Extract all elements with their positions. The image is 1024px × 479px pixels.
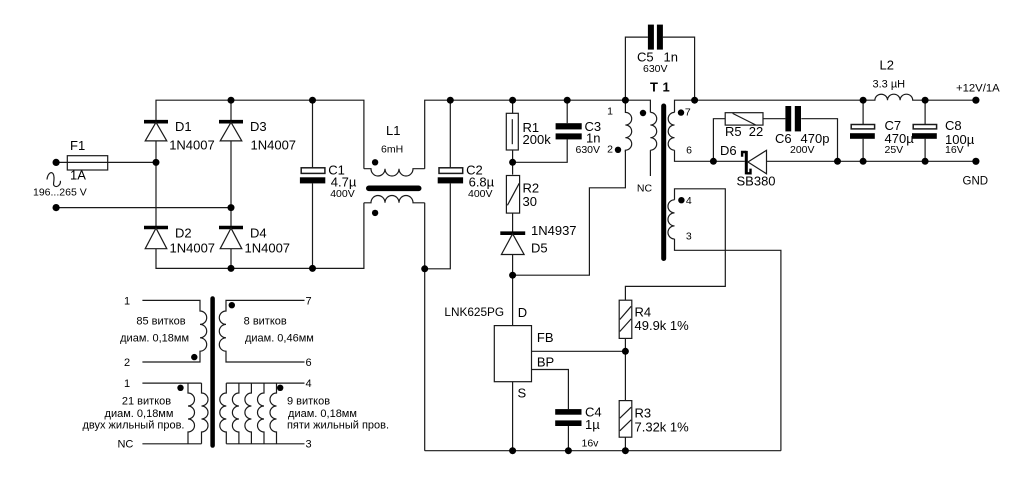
wire primary ground rail <box>425 450 781 452</box>
svg-text:1N4007: 1N4007 <box>245 240 291 255</box>
resistor R4 <box>619 300 632 338</box>
node R1 top <box>509 97 516 104</box>
wire R5 to C6 <box>763 118 785 120</box>
wire bias winding NC stub <box>649 150 651 176</box>
transformer T1 primary winding 1-2 <box>625 100 631 152</box>
svg-text:D1: D1 <box>175 119 192 134</box>
node C1 top <box>309 97 316 104</box>
node drain <box>509 272 516 279</box>
svg-text:NC: NC <box>117 439 133 451</box>
svg-text:7.32k 1%: 7.32k 1% <box>635 420 690 435</box>
svg-text:D3: D3 <box>250 119 267 134</box>
svg-text:400V: 400V <box>330 188 355 200</box>
wire LNK FB pin to divider node <box>532 350 626 352</box>
capacitor C3 <box>556 123 582 139</box>
svg-text:BP: BP <box>537 355 554 370</box>
svg-text:85 витков: 85 витков <box>136 316 185 328</box>
wire D2 anode to bottom rail <box>156 203 364 269</box>
svg-text:диам. 0,18мм: диам. 0,18мм <box>105 408 174 420</box>
svg-text:T1: T1 <box>650 79 674 94</box>
svg-text:1: 1 <box>607 106 613 118</box>
polarity dot shield winding <box>640 110 646 116</box>
svg-text:SB380: SB380 <box>737 174 776 189</box>
svg-text:7: 7 <box>685 107 691 119</box>
node C2 top <box>447 97 454 104</box>
wire feedback winding pin3 to primary ground rail <box>675 239 781 451</box>
svg-text:200V: 200V <box>790 144 815 156</box>
wire LNK drain pin <box>512 275 514 325</box>
wire top rectified rail (left section) <box>156 100 364 169</box>
transformer T1 feedback winding 4-3 <box>668 200 675 239</box>
node S ground <box>509 447 516 454</box>
svg-text:30: 30 <box>523 194 537 209</box>
wire R3 bottom <box>624 437 626 451</box>
detail polarity dot winding 4-3 <box>277 385 283 391</box>
diode D2 <box>144 228 168 249</box>
wire C5 left leg <box>625 37 648 100</box>
detail winding 4-3 five strands <box>220 383 305 444</box>
detail core <box>210 299 215 446</box>
svg-text:диам. 0,18мм: диам. 0,18мм <box>120 333 189 345</box>
svg-text:1N4007: 1N4007 <box>169 138 215 153</box>
wire L1 right to top rail (right section) <box>425 100 626 169</box>
node R1/R2 <box>509 159 516 166</box>
node C8 bottom <box>922 158 929 165</box>
wire LNK BP pin to C4 <box>532 370 569 410</box>
wire LNK source pin <box>512 382 514 451</box>
svg-text:16V: 16V <box>945 144 964 156</box>
svg-text:3: 3 <box>686 231 692 243</box>
svg-text:8 витков: 8 витков <box>244 316 287 328</box>
transformer T1 core <box>661 106 666 259</box>
svg-text:D4: D4 <box>250 226 267 241</box>
svg-text:D5: D5 <box>531 241 548 256</box>
transformer T1 shield winding <box>650 112 656 150</box>
diode D4 <box>219 228 243 249</box>
svg-text:D: D <box>518 305 527 320</box>
resistor R1 <box>506 113 518 150</box>
diode D3 <box>219 122 243 141</box>
node R3 ground <box>622 447 629 454</box>
capacitor C7 <box>850 125 875 139</box>
wire secondary pin7 to +12V rail <box>675 100 864 112</box>
svg-text:9 витков: 9 витков <box>287 396 330 408</box>
node C1 bottom <box>309 265 316 272</box>
svg-text:D6: D6 <box>720 143 737 158</box>
detail winding 1-NC <box>142 383 201 444</box>
svg-text:22: 22 <box>749 124 763 139</box>
inductor L2 <box>863 94 925 100</box>
polarity dot pin2 <box>615 147 621 153</box>
wire L1 bottom-right to C2 bottom junction and down to primary ground <box>424 203 426 451</box>
wire feedback winding pin4 to R4 top <box>625 189 725 300</box>
svg-text:диам. 0,18мм: диам. 0,18мм <box>288 408 357 420</box>
svg-text:S: S <box>518 386 527 401</box>
inductor L1 common-mode choke <box>364 159 425 216</box>
node C2 bottom <box>421 265 428 272</box>
capacitor C1 <box>300 168 325 184</box>
svg-text:2: 2 <box>124 357 130 369</box>
svg-text:6: 6 <box>686 145 692 157</box>
svg-text:49.9k 1%: 49.9k 1% <box>635 318 690 333</box>
svg-text:16v: 16v <box>582 438 600 450</box>
wire C8 column <box>924 100 926 161</box>
svg-text:200k: 200k <box>523 132 552 147</box>
svg-text:двух жильный пров.: двух жильный пров. <box>82 420 184 432</box>
svg-text:C8: C8 <box>945 118 962 133</box>
wire secondary pin6 to D6 cathode <box>675 150 745 161</box>
node C4 ground <box>565 447 572 454</box>
node L2 left <box>860 97 867 104</box>
wire C3 top <box>566 100 568 123</box>
wire C1 column <box>312 100 314 268</box>
resistor R3 <box>619 401 632 438</box>
svg-text:1N4937: 1N4937 <box>531 223 577 238</box>
svg-text:1: 1 <box>124 378 130 390</box>
svg-text:7: 7 <box>305 296 311 308</box>
svg-text:пяти жильный пров.: пяти жильный пров. <box>287 420 389 432</box>
wire R2 to D5 <box>512 213 514 233</box>
svg-text:LNK625PG: LNK625PG <box>444 305 504 319</box>
svg-text:6mH: 6mH <box>381 144 403 156</box>
svg-text:1µ: 1µ <box>585 417 600 432</box>
diode D6 schottky <box>742 150 766 174</box>
wire C6 to GND rail <box>801 119 837 162</box>
svg-text:2: 2 <box>607 144 613 156</box>
svg-text:NC: NC <box>637 183 653 195</box>
svg-text:25V: 25V <box>885 144 904 156</box>
svg-text:196...265 V: 196...265 V <box>33 187 87 199</box>
svg-text:3.3 µH: 3.3 µH <box>873 79 906 91</box>
node D3/D4 <box>228 204 235 211</box>
detail polarity dot winding 7-6 <box>229 302 235 308</box>
node pin1 <box>622 97 629 104</box>
svg-text:диам. 0,46мм: диам. 0,46мм <box>245 333 314 345</box>
wire bias winding top connection <box>625 100 650 112</box>
node C7 bottom <box>860 158 867 165</box>
wire R4 bottom to FB node and R3 <box>624 338 626 400</box>
detail polarity dot winding 1-NC <box>177 385 183 391</box>
svg-text:3: 3 <box>305 439 311 451</box>
svg-text:630V: 630V <box>576 144 601 156</box>
wire drain node to transformer pin 2 <box>513 150 626 275</box>
svg-text:400V: 400V <box>468 188 493 200</box>
node fuse bridge <box>153 159 160 166</box>
node R5 branch <box>710 158 717 165</box>
capacitor C5 <box>648 25 663 50</box>
svg-text:1A: 1A <box>70 168 86 183</box>
wire D5 anode to drain node <box>512 255 514 276</box>
detail winding 7-6 <box>219 300 304 362</box>
svg-text:GND: GND <box>963 175 989 187</box>
resistor R5 <box>725 113 763 125</box>
node FB divider <box>622 348 629 355</box>
wire C2 column <box>425 100 451 269</box>
wire AC neutral input to D3/D4 node <box>56 207 231 209</box>
wire D1 anode to fuse node <box>155 141 157 228</box>
node C3 top <box>564 97 571 104</box>
resistor R2 <box>506 176 519 214</box>
diode D5 <box>500 233 525 254</box>
capacitor C2 <box>438 168 463 184</box>
wire C5 right leg <box>663 37 695 100</box>
wire C4 bottom <box>567 426 569 451</box>
detail polarity dot winding 1-2 <box>191 354 197 360</box>
svg-text:4: 4 <box>686 195 692 207</box>
terminal GND <box>972 158 979 165</box>
node D3 top <box>228 97 235 104</box>
wire +12V rail after L2 to output terminal <box>925 99 976 101</box>
AC source symbol <box>47 173 60 187</box>
svg-text:L1: L1 <box>386 123 400 138</box>
fuse F1 <box>67 156 107 170</box>
capacitor C8 <box>912 125 937 139</box>
svg-text:1N4007: 1N4007 <box>170 240 216 255</box>
svg-text:D2: D2 <box>175 226 192 241</box>
node pin7 rail <box>691 97 698 104</box>
wire R5 snubber left leg <box>713 119 725 162</box>
polarity dot pin4 <box>678 197 684 203</box>
terminal AC live <box>53 159 60 166</box>
svg-text:1: 1 <box>124 296 130 308</box>
svg-text:1N4007: 1N4007 <box>251 138 297 153</box>
svg-text:R5: R5 <box>725 124 742 139</box>
transformer T1 secondary winding 7-6 <box>668 112 674 150</box>
wire C7 column <box>862 100 864 161</box>
detail winding 1-2 <box>142 300 206 362</box>
terminal +12V <box>972 97 979 104</box>
svg-text:630V: 630V <box>643 63 668 75</box>
svg-text:F1: F1 <box>70 138 85 153</box>
node L2 right <box>922 97 929 104</box>
svg-text:R3: R3 <box>635 406 652 421</box>
svg-text:FB: FB <box>537 330 554 345</box>
wire AC live input to fuse and bridge node <box>56 161 156 163</box>
capacitor C4 <box>555 409 581 426</box>
node D4 bottom <box>228 265 235 272</box>
wire R1 column <box>512 100 514 174</box>
svg-text:+12V/1A: +12V/1A <box>956 83 1000 95</box>
diode D1 <box>144 122 168 141</box>
svg-text:6: 6 <box>305 357 311 369</box>
capacitor C6 <box>785 106 801 131</box>
LNK625PG IC U1 <box>494 326 531 382</box>
terminal AC neutral <box>53 204 60 211</box>
polarity dot pin7 <box>678 109 684 115</box>
wire R1/R2 node to C3 bottom <box>513 139 568 162</box>
wire D3 column <box>230 100 232 268</box>
svg-text:21 витков: 21 витков <box>122 396 171 408</box>
svg-text:4: 4 <box>305 378 311 390</box>
wire D6 anode to GND rail <box>767 160 976 162</box>
svg-text:L2: L2 <box>880 58 894 73</box>
node C6 bottom <box>834 158 841 165</box>
